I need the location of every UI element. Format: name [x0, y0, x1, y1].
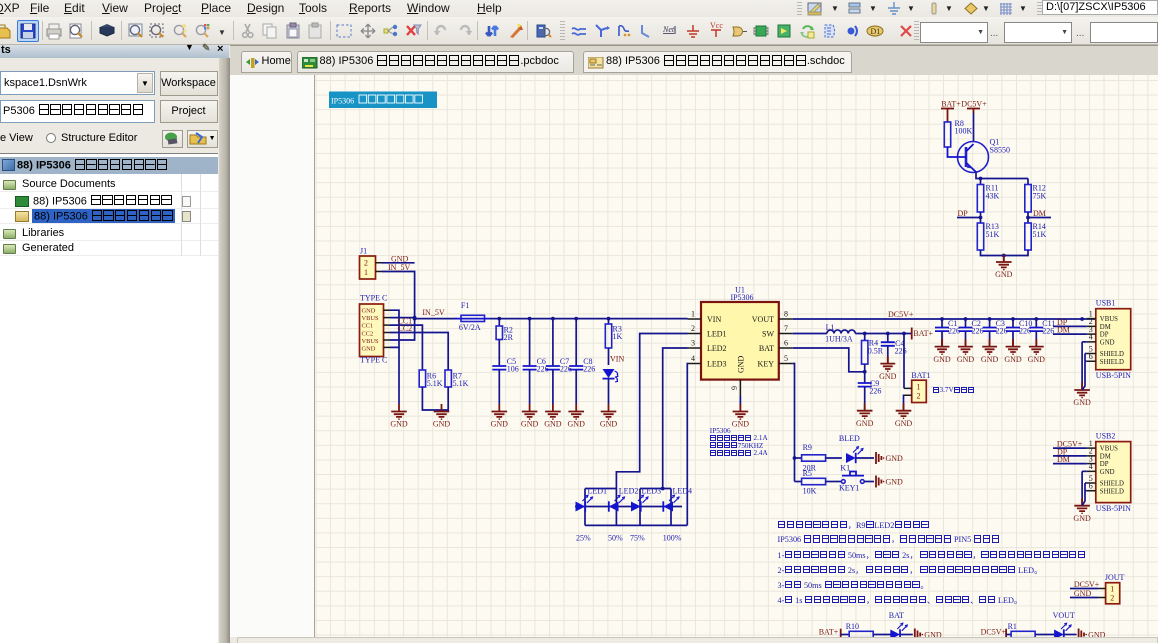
svg-text:3: 3 — [691, 339, 695, 348]
svg-text:BAT+: BAT+ — [819, 627, 839, 636]
svg-text:IN_5V: IN_5V — [388, 263, 410, 272]
svg-text:GND: GND — [1074, 589, 1092, 598]
svg-text:GND: GND — [1028, 355, 1046, 364]
svg-text:VBUS: VBUS — [362, 338, 379, 345]
svg-text:1: 1 — [917, 383, 921, 392]
svg-text:SHIELD: SHIELD — [1100, 481, 1124, 488]
svg-text:5.1K: 5.1K — [427, 379, 443, 388]
svg-text:GND: GND — [521, 420, 539, 429]
svg-text:BAT: BAT — [759, 344, 774, 353]
svg-text:VIN: VIN — [707, 315, 721, 324]
svg-text:43K: 43K — [986, 192, 1000, 201]
svg-text:VOUT: VOUT — [752, 315, 774, 324]
svg-text:DP: DP — [1100, 461, 1109, 468]
svg-text:R5: R5 — [803, 469, 812, 478]
svg-text:F1: F1 — [461, 301, 469, 310]
svg-text:J1: J1 — [360, 247, 367, 256]
svg-text:LED2: LED2 — [619, 487, 639, 496]
svg-text:BLED: BLED — [839, 434, 860, 443]
svg-text:GND: GND — [732, 420, 750, 429]
svg-text:LED4: LED4 — [673, 487, 693, 496]
svg-text:GND: GND — [1004, 355, 1022, 364]
svg-text:226: 226 — [948, 327, 960, 336]
svg-text:100%: 100% — [663, 534, 682, 543]
svg-text:VIN: VIN — [610, 355, 624, 364]
svg-text:50%: 50% — [608, 534, 623, 543]
svg-text:TYPE C: TYPE C — [360, 294, 387, 303]
svg-text:GND: GND — [995, 270, 1013, 279]
svg-text:SHIELD: SHIELD — [1100, 351, 1124, 358]
svg-text:TYPE C: TYPE C — [360, 356, 387, 365]
svg-text:GND: GND — [924, 630, 942, 637]
svg-text:GND: GND — [1088, 630, 1106, 637]
svg-text:S8550: S8550 — [990, 146, 1010, 155]
svg-text:8: 8 — [784, 310, 788, 319]
svg-text:GND: GND — [600, 420, 618, 429]
svg-text:DM: DM — [1057, 455, 1070, 464]
svg-text:7: 7 — [784, 324, 788, 333]
svg-text:USB-5PIN: USB-5PIN — [1096, 504, 1131, 513]
svg-text:GND: GND — [981, 355, 999, 364]
svg-text:GND: GND — [879, 372, 897, 381]
svg-text:DC5V+: DC5V+ — [981, 627, 1007, 636]
svg-text:SHIELD: SHIELD — [1100, 488, 1124, 495]
svg-text:2: 2 — [364, 259, 368, 268]
svg-text:LED1: LED1 — [588, 487, 608, 496]
svg-text:GND: GND — [957, 355, 975, 364]
svg-text:R10: R10 — [846, 622, 859, 631]
svg-text:IN_5V: IN_5V — [422, 308, 444, 317]
svg-text:75K: 75K — [1033, 192, 1047, 201]
svg-text:6: 6 — [784, 339, 788, 348]
svg-text:D1: D1 — [871, 27, 881, 36]
svg-text:GND: GND — [1073, 398, 1091, 407]
svg-text:IP5306: IP5306 — [730, 293, 753, 302]
svg-text:GND: GND — [391, 254, 409, 263]
svg-text:DC5V+: DC5V+ — [888, 310, 914, 319]
svg-text:1: 1 — [364, 268, 368, 277]
svg-text:GND: GND — [933, 355, 951, 364]
svg-text:KEY1: KEY1 — [839, 484, 859, 493]
svg-text:K1: K1 — [840, 464, 850, 473]
svg-text:LED3: LED3 — [642, 487, 662, 496]
svg-text:4: 4 — [1089, 462, 1093, 471]
svg-text:0.5R: 0.5R — [868, 346, 884, 355]
svg-text:USB2: USB2 — [1096, 432, 1116, 441]
svg-text:10K: 10K — [803, 487, 817, 496]
svg-text:6V/2A: 6V/2A — [459, 323, 481, 332]
svg-text:JOUT: JOUT — [1105, 573, 1125, 582]
svg-text:5: 5 — [784, 354, 788, 363]
svg-text:Net: Net — [662, 25, 675, 34]
svg-text:DC5V+: DC5V+ — [961, 100, 987, 109]
svg-text:2: 2 — [691, 324, 695, 333]
svg-text:BAT1: BAT1 — [911, 371, 930, 380]
svg-text:CC2: CC2 — [362, 330, 374, 337]
svg-text:BAT+: BAT+ — [913, 329, 933, 338]
svg-text:VBUS: VBUS — [362, 315, 379, 322]
svg-text:GND: GND — [886, 454, 904, 463]
svg-text:100K: 100K — [955, 127, 973, 136]
svg-text:SHIELD: SHIELD — [1100, 359, 1124, 366]
svg-text:VBUS: VBUS — [1100, 446, 1118, 453]
svg-text:KEY: KEY — [758, 359, 775, 368]
svg-text:DM: DM — [1057, 326, 1070, 335]
svg-text:226: 226 — [996, 327, 1008, 336]
svg-text:GND: GND — [1100, 469, 1115, 476]
svg-text:R9: R9 — [803, 443, 812, 452]
svg-text:4: 4 — [691, 354, 695, 363]
svg-text:GND: GND — [856, 419, 874, 428]
svg-text:5.1K: 5.1K — [453, 379, 469, 388]
svg-text:LED1: LED1 — [707, 329, 727, 338]
svg-text:GND: GND — [433, 420, 451, 429]
svg-text:4: 4 — [1089, 333, 1093, 342]
svg-text:GND: GND — [491, 420, 509, 429]
svg-text:USB-5PIN: USB-5PIN — [1096, 371, 1131, 380]
svg-text:DC5V+: DC5V+ — [1074, 580, 1100, 589]
svg-text:DP: DP — [1100, 332, 1109, 339]
svg-text:LED3: LED3 — [707, 359, 727, 368]
svg-text:IP5306: IP5306 — [331, 97, 354, 106]
svg-text:226: 226 — [1019, 327, 1031, 336]
svg-text:GND: GND — [1100, 339, 1115, 346]
svg-text:DM: DM — [1100, 453, 1111, 460]
svg-text:DP: DP — [958, 209, 969, 218]
svg-text:GND: GND — [544, 420, 562, 429]
svg-text:USB1: USB1 — [1096, 299, 1116, 308]
svg-text:226: 226 — [972, 327, 984, 336]
svg-text:226: 226 — [583, 365, 595, 374]
svg-text:9: 9 — [730, 386, 739, 390]
svg-text:R1: R1 — [1008, 622, 1017, 631]
svg-text:1UH/3A: 1UH/3A — [825, 335, 853, 344]
svg-text:BAT+: BAT+ — [941, 100, 961, 109]
svg-text:2: 2 — [1110, 594, 1114, 603]
svg-text:DM: DM — [1100, 324, 1111, 331]
svg-text:DM: DM — [1033, 209, 1046, 218]
svg-text:6: 6 — [1089, 482, 1093, 491]
svg-text:25%: 25% — [576, 534, 591, 543]
svg-text:CC2: CC2 — [398, 324, 413, 333]
svg-text:2R: 2R — [504, 333, 514, 342]
svg-text:226: 226 — [869, 387, 881, 396]
svg-text:1K: 1K — [613, 332, 623, 341]
svg-text:75%: 75% — [630, 534, 645, 543]
svg-text:GND: GND — [390, 420, 408, 429]
svg-text:GND: GND — [737, 355, 746, 373]
svg-text:GND: GND — [362, 308, 376, 315]
svg-text:GND: GND — [1073, 514, 1091, 523]
svg-text:VBUS: VBUS — [1100, 316, 1118, 323]
svg-text:51K: 51K — [1033, 230, 1047, 239]
svg-text:51K: 51K — [986, 230, 1000, 239]
svg-text:BAT: BAT — [889, 611, 904, 620]
svg-text:GND: GND — [362, 345, 376, 352]
svg-text:VOUT: VOUT — [1053, 611, 1075, 620]
svg-text:1: 1 — [1110, 585, 1114, 594]
svg-text:106: 106 — [507, 365, 519, 374]
svg-text:2: 2 — [917, 392, 921, 401]
svg-text:SW: SW — [762, 329, 774, 338]
svg-text:GND: GND — [568, 420, 586, 429]
svg-text:226: 226 — [1042, 327, 1054, 336]
svg-text:Vcc: Vcc — [710, 22, 723, 30]
svg-text:LED2: LED2 — [707, 344, 727, 353]
svg-text:GND: GND — [886, 477, 904, 486]
svg-text:GND: GND — [895, 419, 913, 428]
svg-text:1: 1 — [691, 310, 695, 319]
svg-text:CC1: CC1 — [362, 323, 374, 330]
svg-text:6: 6 — [1089, 352, 1093, 361]
